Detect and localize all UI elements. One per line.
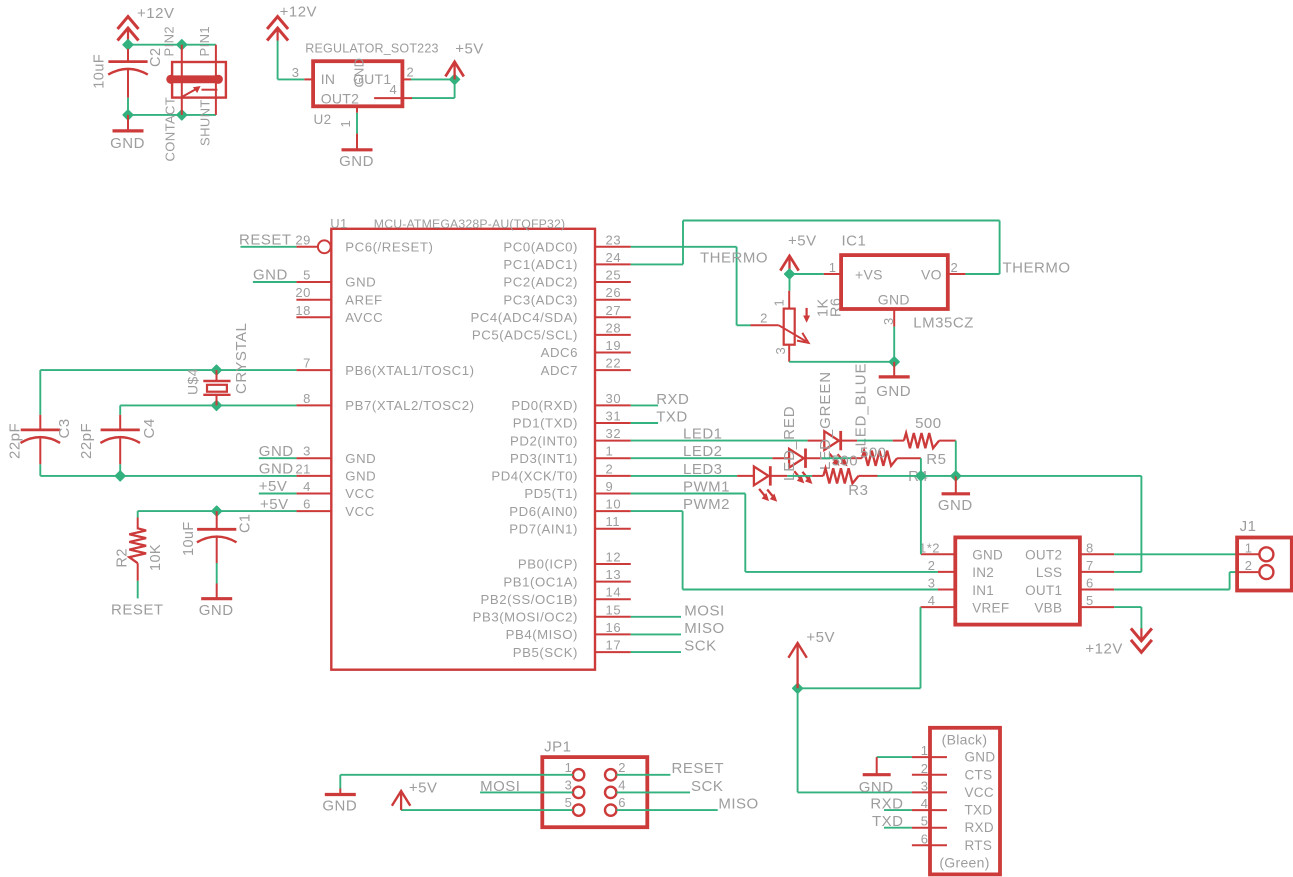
U1 pin 12 PB0(ICP) — [595, 563, 631, 565]
wire C1 bottom — [216, 563, 218, 584]
svg-text:LED2: LED2 — [683, 443, 723, 460]
ground GND under regulator U2 — [356, 134, 358, 150]
svg-text:GND: GND — [259, 443, 294, 460]
node junction crystal bottom — [212, 401, 222, 411]
net TXD wire at FTDI pin 5 — [884, 827, 912, 829]
svg-text:LED1: LED1 — [683, 426, 723, 443]
svg-text:+VS: +VS — [855, 266, 883, 282]
svg-text:PB3(MOSI/OC2): PB3(MOSI/OC2) — [473, 610, 578, 625]
svg-text:23: 23 — [606, 232, 622, 247]
svg-text:2: 2 — [921, 761, 929, 776]
svg-text:VCC: VCC — [345, 486, 375, 501]
regulator pin 4 OUT2 stub — [374, 97, 412, 99]
wire +5V junction down to FTDI VCC — [797, 688, 799, 792]
capacitor C3 — [39, 415, 41, 430]
wire regulator GND — [356, 113, 358, 134]
svg-text:4: 4 — [390, 82, 398, 97]
svg-text:PB5(SCK): PB5(SCK) — [513, 645, 578, 660]
svg-text:4: 4 — [928, 593, 936, 608]
svg-text:PWM1: PWM1 — [683, 479, 730, 496]
driver IC body (GND/IN2/IN1/VREF OUT2/LSS/OUT1/VBB) — [955, 537, 1080, 624]
svg-text:GND: GND — [322, 798, 357, 815]
svg-text:THERMO: THERMO — [700, 250, 768, 267]
svg-text:3: 3 — [921, 778, 929, 793]
FTDI pin 2 CTS — [912, 774, 947, 776]
wire R5 to GND junction — [955, 441, 957, 476]
svg-text:PB7(XTAL2/TOSC2): PB7(XTAL2/TOSC2) — [345, 398, 474, 413]
net THERMO wire from U1 pin 23 to R6 wiper — [631, 246, 737, 248]
net TXD wire — [631, 422, 658, 424]
svg-text:5: 5 — [565, 795, 573, 810]
U1 pin 29 PC6(/RESET) — [296, 246, 318, 248]
U1 pin 23 PC0(ADC0) — [595, 246, 631, 248]
svg-text:8: 8 — [1086, 540, 1094, 555]
svg-text:+5V: +5V — [455, 40, 484, 57]
svg-text:PD0(RXD): PD0(RXD) — [511, 398, 578, 413]
ground GND at JP1 — [339, 789, 341, 795]
supply symbol +12V (regulator input) — [267, 17, 288, 29]
svg-text:MCU-ATMEGA328P-AU(TQFP32): MCU-ATMEGA328P-AU(TQFP32) — [374, 217, 565, 231]
svg-text:15: 15 — [606, 602, 622, 617]
svg-text:PC0(ADC0): PC0(ADC0) — [503, 240, 578, 255]
resistor R5 500 — [893, 440, 904, 442]
svg-text:16: 16 — [606, 620, 622, 635]
net MISO wire at JP1 pin 6 — [616, 809, 717, 811]
svg-text:LED3: LED3 — [683, 461, 723, 478]
U1 pin 32 PD2(INT0) — [595, 440, 631, 442]
svg-text:VCC: VCC — [965, 785, 994, 800]
U1 pin 28 PC5(ADC5/SCL) — [595, 334, 631, 336]
svg-text:13: 13 — [606, 567, 622, 582]
svg-text:(Green): (Green) — [939, 854, 989, 870]
svg-text:2: 2 — [928, 558, 936, 573]
svg-text:OUT2: OUT2 — [321, 91, 360, 107]
supply symbol +5V (regulator output) — [445, 62, 463, 77]
wire top rail C2 to PIN1 — [128, 44, 216, 46]
svg-text:PD5(T1): PD5(T1) — [524, 486, 578, 501]
net SCK wire at JP1 pin 4 — [616, 791, 690, 793]
svg-text:4: 4 — [921, 796, 929, 811]
svg-text:GND: GND — [199, 602, 234, 619]
svg-text:PD6(AIN0): PD6(AIN0) — [509, 504, 578, 519]
wire IC1 pin3 to GND — [893, 327, 895, 362]
svg-text:10uF: 10uF — [181, 521, 197, 556]
svg-text:ADC7: ADC7 — [541, 363, 578, 378]
svg-text:JP1: JP1 — [544, 739, 571, 756]
node junction C2 bottom — [123, 110, 133, 120]
svg-text:RESET: RESET — [672, 760, 725, 777]
U1 pin 8 PB7(XTAL2/TOSC2) — [296, 404, 331, 406]
wire GND junction to LSS corner — [956, 475, 1142, 477]
svg-text:PD3(INT1): PD3(INT1) — [510, 451, 578, 466]
U1 pin 16 PB4(MISO) — [595, 633, 631, 635]
U1 pin 17 PB5(SCK) — [595, 651, 631, 653]
node junction +5V (FTDI feed) — [793, 683, 803, 693]
svg-text:+12V: +12V — [1085, 641, 1122, 658]
svg-text:1: 1 — [565, 760, 573, 775]
svg-text:THERMO: THERMO — [1003, 260, 1071, 277]
wire GND junctions — [921, 475, 956, 477]
svg-text:27: 27 — [606, 303, 622, 318]
svg-text:IN1: IN1 — [972, 583, 994, 598]
svg-text:LED_BLUE: LED_BLUE — [853, 363, 870, 447]
supply symbol +12V (VBB, pointing down) — [1131, 640, 1152, 652]
svg-text:PB1(OC1A): PB1(OC1A) — [503, 574, 578, 589]
svg-text:MOSI: MOSI — [480, 778, 520, 795]
wire JP1 pin5 to +5V — [401, 809, 573, 811]
svg-text:2: 2 — [606, 461, 614, 476]
svg-text:GND: GND — [352, 58, 367, 88]
wire OUT1 to +5V — [411, 78, 455, 80]
net RESET wire at U1 pin 29 — [241, 246, 297, 248]
driver pin 8 OUT2 stub — [1080, 553, 1114, 555]
svg-text:18: 18 — [295, 303, 311, 318]
svg-text:GND: GND — [876, 383, 911, 400]
svg-text:GND: GND — [938, 497, 973, 514]
net SCK wire — [631, 651, 681, 653]
svg-text:6: 6 — [618, 795, 626, 810]
wire +5V to IC1 +VS — [790, 273, 824, 275]
FTDI pin 3 VCC — [912, 791, 947, 793]
svg-text:1: 1 — [606, 444, 614, 459]
svg-text:LM35CZ: LM35CZ — [913, 315, 974, 332]
regulator U2 pin 3 stub — [304, 78, 313, 80]
jumper component CONTACT/SHUNT pin PIN2 lead — [181, 45, 183, 115]
jumper component CONTACT/SHUNT body — [172, 62, 226, 98]
svg-text:3: 3 — [292, 65, 300, 80]
svg-text:AREF: AREF — [345, 292, 382, 307]
svg-text:+5V: +5V — [806, 629, 835, 646]
IC1 pin 3 stub — [893, 309, 895, 327]
svg-text:3: 3 — [928, 576, 936, 591]
U1 pin 25 PC2(ADC2) — [595, 281, 631, 283]
driver pin 1*2 GND stub — [921, 553, 955, 555]
svg-text:VREF: VREF — [972, 600, 1009, 615]
svg-text:R2: R2 — [114, 548, 130, 567]
net MOSI wire at JP1 pin 3 — [480, 791, 573, 793]
microcontroller U1 MCU-ATMEGA328P-AU(TQFP32) body — [331, 229, 595, 670]
U1 pin 31 PD1(TXD) — [595, 422, 631, 424]
svg-text:8: 8 — [303, 391, 311, 406]
ground GND under LED junction — [955, 476, 957, 494]
svg-text:14: 14 — [606, 585, 622, 600]
U1 pin 2 PD4(XCK/T0) — [595, 475, 631, 477]
JP1 pins 5 and 6 — [573, 804, 584, 815]
svg-text:GND: GND — [339, 153, 374, 170]
svg-text:U$4: U$4 — [185, 368, 201, 395]
svg-text:CTS: CTS — [965, 767, 993, 782]
svg-text:12: 12 — [606, 550, 622, 565]
svg-text:30: 30 — [606, 391, 622, 406]
wire C3 bottom — [39, 464, 41, 476]
svg-text:VBB: VBB — [1034, 600, 1062, 615]
U1 pin 30 PD0(RXD) — [595, 404, 631, 406]
svg-text:2: 2 — [618, 760, 626, 775]
svg-text:GND: GND — [110, 135, 145, 152]
U1 pin 6 VCC — [296, 510, 331, 512]
ground GND under C2 — [127, 115, 129, 131]
svg-text:10uF: 10uF — [91, 54, 107, 89]
svg-text:GND: GND — [345, 469, 376, 484]
wire XTAL2 rail — [120, 404, 296, 406]
svg-text:PD2(INT0): PD2(INT0) — [510, 433, 578, 448]
serial header body (FTDI) — [930, 728, 1000, 875]
svg-text:U2: U2 — [314, 112, 332, 127]
svg-text:RTS: RTS — [965, 838, 993, 853]
svg-text:+5V: +5V — [409, 780, 438, 797]
wire FTDI pin1 to GND — [877, 756, 912, 758]
node junction crystal top — [212, 365, 222, 375]
svg-text:SCK: SCK — [691, 778, 723, 795]
wire +12V to regulator IN — [277, 41, 279, 80]
wire R2 to RESET — [137, 581, 139, 599]
supply symbol +5V (JP1) — [392, 791, 410, 806]
svg-text:U1: U1 — [330, 216, 347, 231]
U1 pin 20 AREF — [296, 299, 331, 301]
node junction at C2 top rail — [123, 40, 133, 50]
svg-text:GND: GND — [253, 267, 288, 284]
svg-text:PB0(ICP): PB0(ICP) — [518, 557, 578, 572]
capacitor C1 10uF — [216, 511, 218, 529]
capacitor C4 — [119, 415, 121, 430]
svg-text:PC2(ADC2): PC2(ADC2) — [503, 275, 578, 290]
net GND wire at U1 pin 3 — [259, 457, 297, 459]
svg-text:GND: GND — [345, 275, 376, 290]
wire OUT2 to +5V — [412, 97, 455, 99]
svg-text:PB4(MISO): PB4(MISO) — [506, 627, 578, 642]
FTDI pin 1 GND — [912, 756, 947, 758]
net MISO wire — [631, 633, 681, 635]
svg-text:500: 500 — [832, 453, 859, 470]
svg-text:22pF: 22pF — [7, 423, 24, 459]
svg-text:+5V: +5V — [788, 233, 817, 250]
svg-text:11: 11 — [606, 514, 621, 529]
net RXD wire at FTDI pin 4 — [884, 809, 912, 811]
wire GND rail to U1 pin 21 — [40, 475, 296, 477]
svg-text:R5: R5 — [926, 451, 946, 468]
LED LED_RED — [737, 475, 754, 477]
net MOSI wire — [631, 616, 681, 618]
wire JP1 pin1 to GND — [340, 774, 573, 776]
U1 pin 22 ADC7 — [595, 369, 631, 371]
svg-text:1: 1 — [1245, 540, 1253, 555]
regulator pin 1 GND stub — [356, 106, 358, 113]
ground GND at FTDI pin 1 — [876, 757, 878, 775]
driver pin 6 OUT1 stub — [1080, 589, 1114, 591]
temperature sensor IC1 LM35CZ body — [841, 255, 948, 309]
svg-text:PWM2: PWM2 — [683, 496, 730, 513]
svg-text:LSS: LSS — [1036, 565, 1062, 580]
svg-text:CONTACT: CONTACT — [163, 97, 178, 162]
svg-text:1: 1 — [338, 120, 353, 128]
svg-text:3: 3 — [773, 347, 788, 355]
U1 pin 14 PB2(SS/OC1B) — [595, 598, 631, 600]
supply symbol +5V (IC1) — [780, 256, 798, 271]
svg-text:29: 29 — [295, 232, 311, 247]
svg-text:+12V: +12V — [280, 3, 317, 20]
svg-text:PC6(/RESET): PC6(/RESET) — [345, 240, 433, 255]
U1 pin 5 GND — [296, 281, 331, 283]
svg-text:28: 28 — [606, 320, 622, 335]
svg-text:1: 1 — [829, 260, 837, 275]
connector J1 body — [1237, 538, 1292, 591]
wire VREF to +5V junction — [920, 607, 922, 688]
svg-text:VO: VO — [921, 266, 942, 282]
node junction IC1 GND — [889, 357, 899, 367]
svg-text:ADC6: ADC6 — [541, 345, 578, 360]
potentiometer R6 1K — [788, 291, 790, 309]
svg-text:10: 10 — [606, 497, 622, 512]
svg-text:26: 26 — [606, 285, 622, 300]
svg-text:3: 3 — [881, 317, 896, 325]
svg-text:RXD: RXD — [870, 795, 903, 812]
svg-text:MOSI: MOSI — [684, 602, 724, 619]
svg-text:PC1(ADC1): PC1(ADC1) — [503, 257, 578, 272]
node junction CONTACT bottom — [177, 110, 187, 120]
svg-text:1*2: 1*2 — [919, 540, 940, 555]
wire OUT2 to J1 pin 1 — [1114, 553, 1237, 555]
wire OUT1 to J1 pin 2 — [1114, 589, 1229, 591]
net +5V wire at U1 pin 4 — [259, 493, 297, 495]
wire LED_RED to R3 — [787, 475, 812, 477]
U1 pin 13 PB1(OC1A) — [595, 581, 631, 583]
svg-text:2: 2 — [760, 310, 768, 325]
svg-text:GND: GND — [972, 548, 1003, 563]
U1 pin 1 PD3(INT1) — [595, 457, 631, 459]
node junction C1 top — [212, 506, 222, 516]
jumper component CONTACT/SHUNT pin PIN1 lead — [215, 45, 217, 115]
svg-text:500: 500 — [860, 444, 887, 461]
svg-text:C3: C3 — [56, 418, 73, 438]
svg-text:GND: GND — [345, 451, 376, 466]
ISP header JP1 body — [542, 757, 647, 827]
svg-text:IN: IN — [321, 71, 336, 87]
svg-text:PC3(ADC3): PC3(ADC3) — [503, 292, 578, 307]
resistor R3 500 — [812, 475, 823, 477]
U1 pin 3 GND — [296, 457, 331, 459]
svg-text:24: 24 — [606, 250, 622, 265]
svg-text:9: 9 — [606, 479, 614, 494]
svg-text:RESET: RESET — [111, 602, 164, 619]
svg-text:TXD: TXD — [965, 803, 993, 818]
driver pin 7 LSS stub — [1080, 571, 1114, 573]
net LED1 wire — [631, 440, 808, 442]
svg-text:PD4(XCK/T0): PD4(XCK/T0) — [491, 469, 578, 484]
net THERMO wire from U1 pin 24 to IC1 VO — [631, 263, 683, 265]
wire C4 bottom — [119, 464, 121, 476]
svg-text:6: 6 — [1086, 576, 1094, 591]
svg-text:PD7(AIN1): PD7(AIN1) — [509, 521, 578, 536]
U1 pin 9 PD5(T1) — [595, 493, 631, 495]
wire +5V rail to U1 pin 6 — [138, 510, 297, 512]
net PWM1 wire — [631, 493, 746, 495]
svg-text:AVCC: AVCC — [345, 310, 383, 325]
driver pin 2 IN2 stub — [938, 571, 955, 573]
U1 pin 19 ADC6 — [595, 352, 631, 354]
svg-text:PC4(ADC4/SDA): PC4(ADC4/SDA) — [470, 310, 578, 325]
JP1 pins 3 and 4 — [573, 787, 584, 798]
svg-text:OUT1: OUT1 — [1025, 583, 1062, 598]
svg-text:GND: GND — [859, 779, 894, 796]
svg-text:3: 3 — [303, 444, 311, 459]
svg-text:20: 20 — [295, 285, 311, 300]
node junction +5V IC1 — [785, 269, 795, 279]
svg-text:1: 1 — [921, 743, 929, 758]
svg-text:4: 4 — [303, 479, 311, 494]
svg-text:VCC: VCC — [345, 504, 375, 519]
svg-text:2: 2 — [951, 260, 959, 275]
svg-text:10K: 10K — [148, 544, 164, 571]
U1 pin 18 AVCC — [296, 316, 331, 318]
svg-text:32: 32 — [606, 426, 622, 441]
svg-text:IN2: IN2 — [972, 565, 994, 580]
svg-text:(Black): (Black) — [942, 732, 988, 748]
svg-text:PB6(XTAL1/TOSC1): PB6(XTAL1/TOSC1) — [345, 363, 474, 378]
wire +5V to R6 pin 1 — [789, 274, 791, 291]
svg-text:7: 7 — [1086, 558, 1094, 573]
svg-text:5: 5 — [303, 268, 311, 283]
svg-text:GND: GND — [965, 750, 996, 765]
wire VBB to +12V — [1114, 606, 1141, 608]
FTDI pin 4 TXD — [912, 809, 947, 811]
U1 pin 7 PB6(XTAL1/TOSC1) — [296, 369, 331, 371]
svg-text:C4: C4 — [141, 418, 158, 438]
wire LED_GREEN to R4 — [822, 457, 851, 459]
svg-text:TXD: TXD — [872, 813, 904, 830]
net GND wire at U1 pin 5 — [253, 281, 297, 283]
node junction PIN2 top — [177, 40, 187, 50]
svg-text:SHUNT: SHUNT — [198, 99, 213, 146]
J1 pin 1 — [1237, 553, 1259, 555]
svg-text:J1: J1 — [1240, 518, 1257, 535]
U1 pin 10 PD6(AIN0) — [595, 510, 631, 512]
svg-text:R3: R3 — [848, 482, 868, 499]
svg-text:31: 31 — [606, 409, 622, 424]
svg-text:LED_RED: LED_RED — [781, 406, 798, 482]
svg-text:CRYSTAL: CRYSTAL — [233, 323, 250, 394]
U1 pin 15 PB3(MOSI/OC2) — [595, 616, 631, 618]
svg-text:PD1(TXD): PD1(TXD) — [513, 416, 578, 431]
svg-text:2: 2 — [407, 65, 415, 80]
svg-text:PB2(SS/OC1B): PB2(SS/OC1B) — [481, 592, 578, 607]
driver pin 3 IN1 stub — [938, 589, 955, 591]
svg-text:25: 25 — [606, 268, 622, 283]
svg-text:5: 5 — [921, 814, 929, 829]
driver pin 5 VBB stub — [1080, 606, 1114, 608]
LED LED_BLUE — [808, 440, 825, 442]
node junction LED GND right — [951, 471, 961, 481]
svg-text:4: 4 — [618, 777, 626, 792]
net LED3 wire — [631, 475, 737, 477]
net PWM2 wire — [631, 510, 683, 512]
wire R6 pin3 to GND rail — [789, 361, 894, 363]
U1 pin 11 PD7(AIN1) — [595, 528, 631, 530]
ground GND under C1 — [216, 584, 218, 599]
U1 pin 26 PC3(ADC3) — [595, 299, 631, 301]
svg-text:22pF: 22pF — [78, 423, 95, 459]
U1 pin 27 PC4(ADC4/SDA) — [595, 316, 631, 318]
svg-text:PIN1: PIN1 — [197, 26, 212, 57]
svg-text:2: 2 — [1245, 558, 1253, 573]
supply symbol +12V (top-left) — [118, 17, 139, 29]
wire C2 bottom — [127, 98, 129, 115]
svg-text:PIN2: PIN2 — [162, 26, 177, 57]
wire GND junction down to driver pin 1*2 — [920, 476, 922, 554]
wire bottom rail C2 to SHUNT — [128, 114, 216, 116]
svg-text:RESET: RESET — [239, 232, 292, 249]
U1 pin 21 GND — [296, 475, 331, 477]
wire LSS to GND rail — [1140, 476, 1142, 572]
